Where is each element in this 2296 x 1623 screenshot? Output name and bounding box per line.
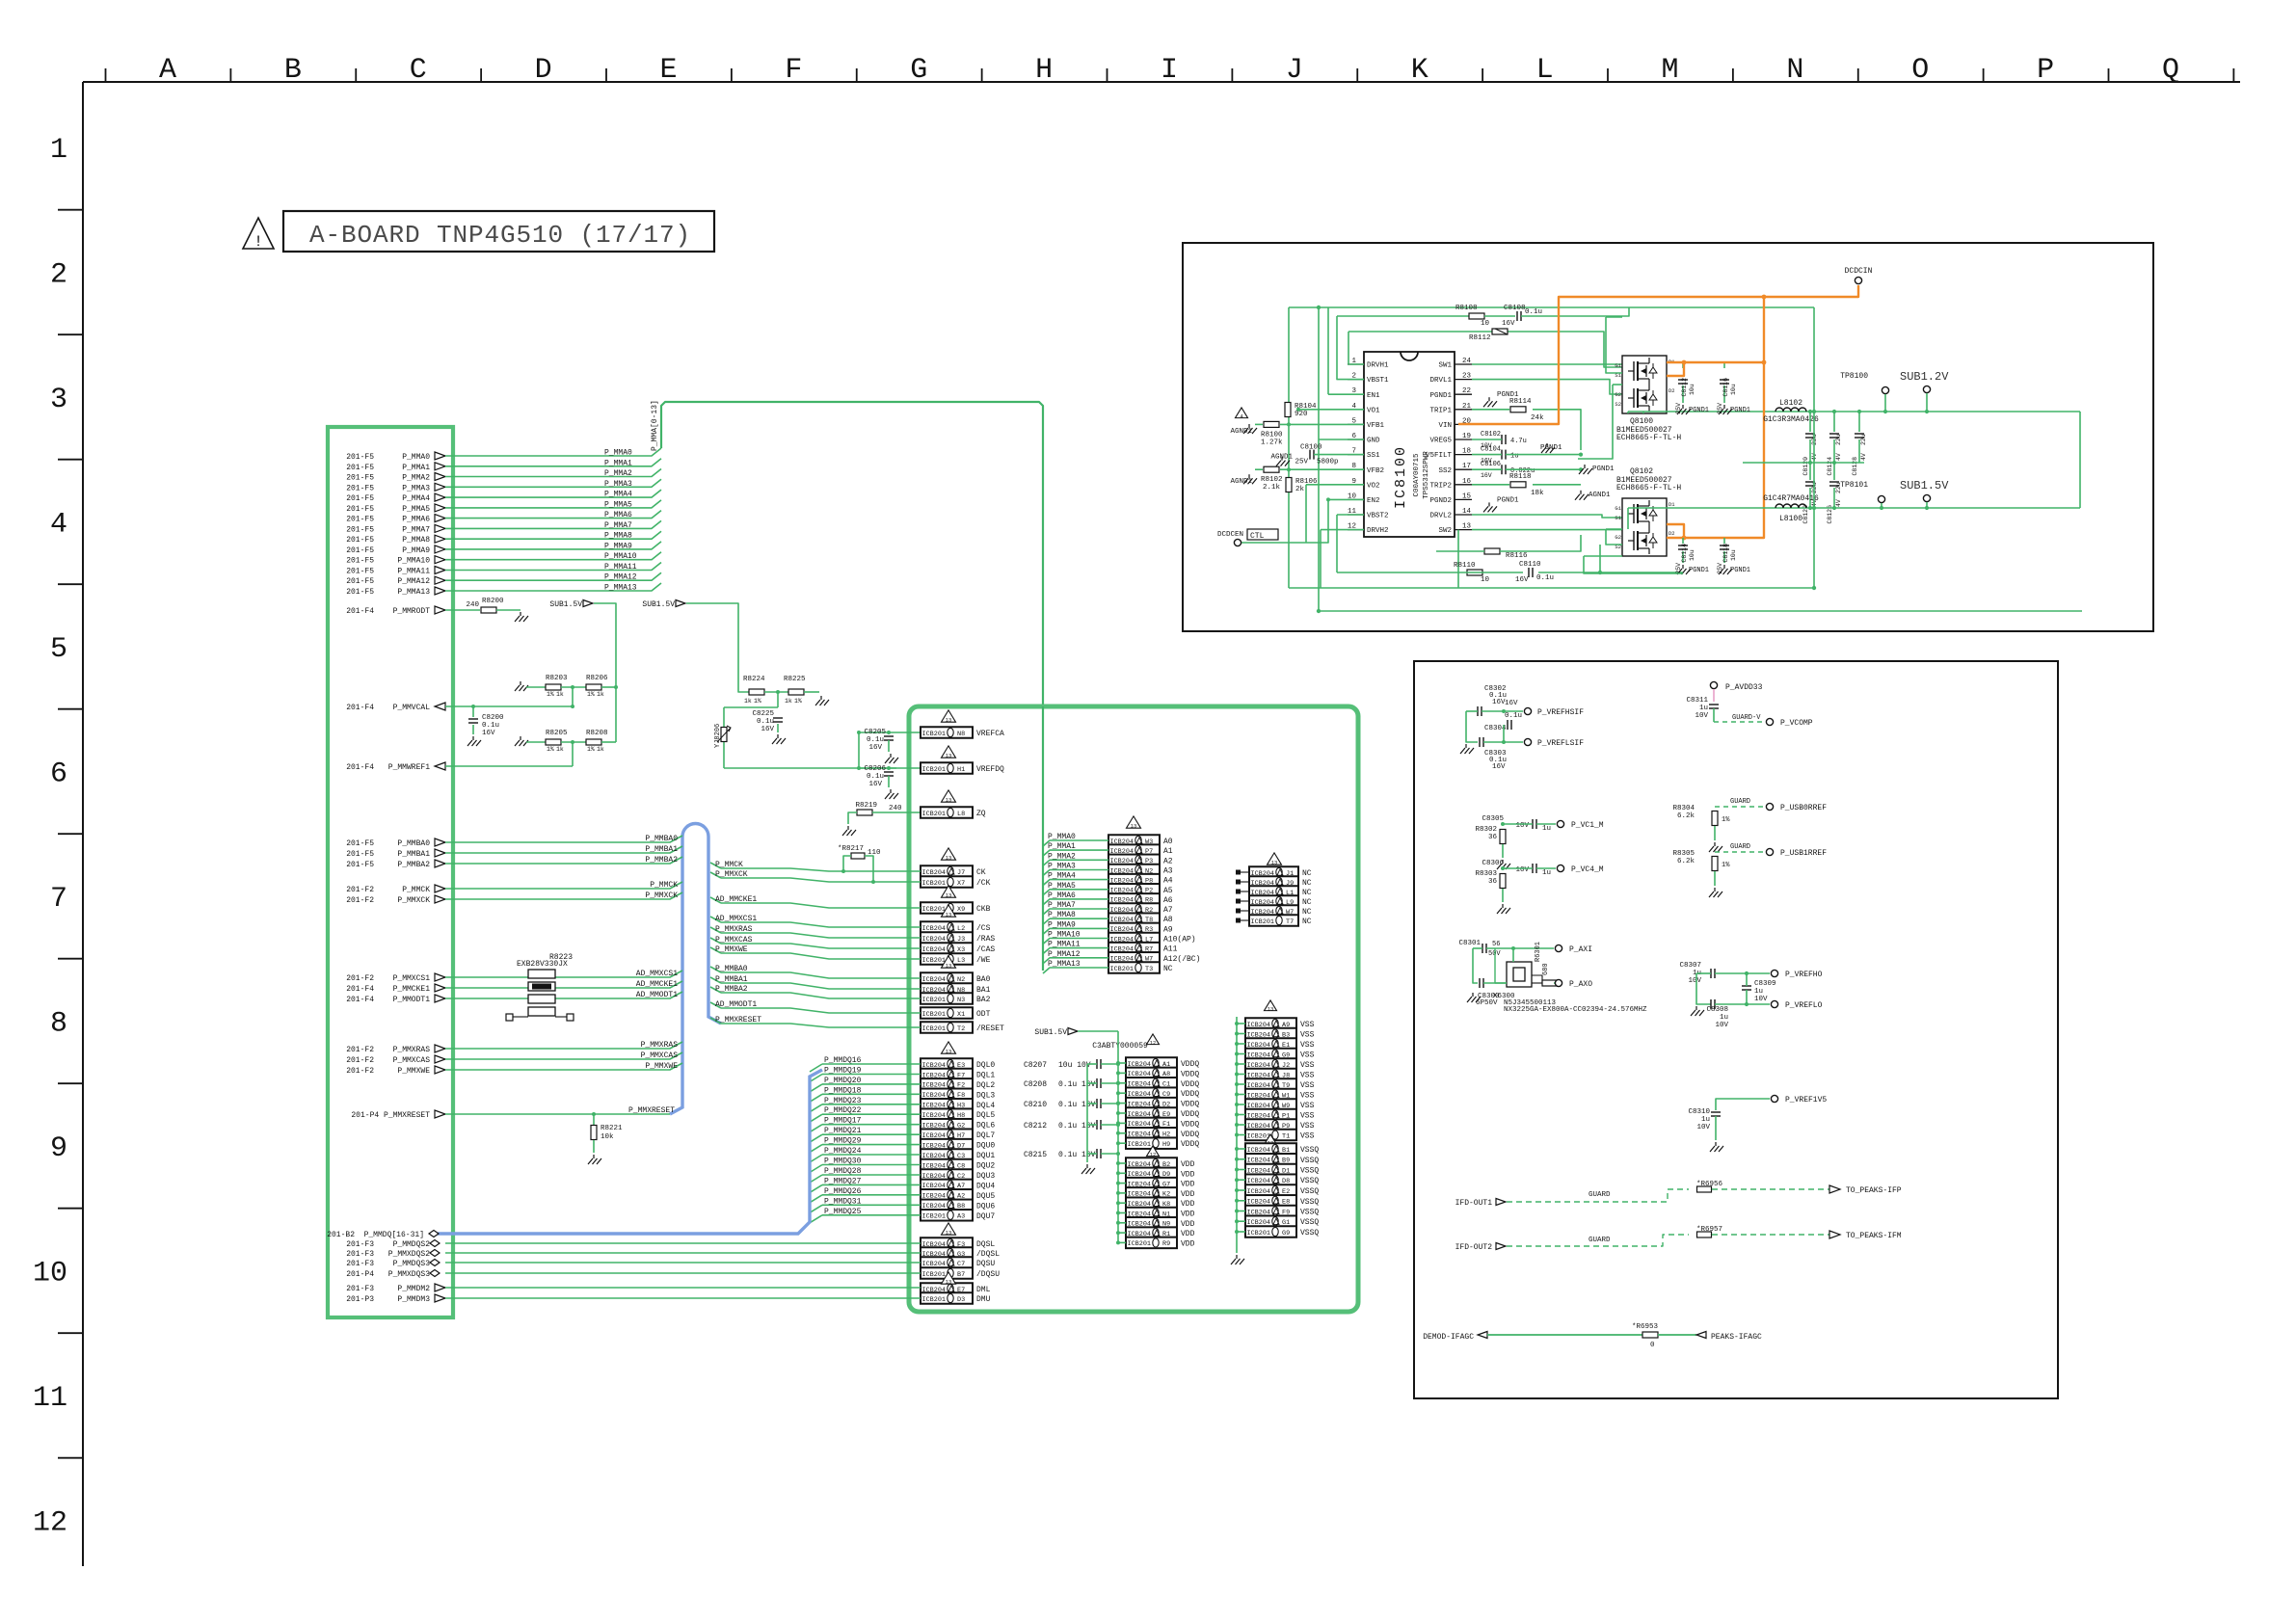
svg-text:AD_MMXCS1: AD_MMXCS1 [636, 970, 678, 978]
svg-text:P_MMXCAS: P_MMXCAS [393, 1056, 431, 1065]
svg-text:22u: 22u [1860, 434, 1867, 445]
svg-text:201-F2: 201-F2 [346, 974, 374, 983]
svg-text:ICB201: ICB201 [1247, 1230, 1270, 1237]
svg-text:VSSQ: VSSQ [1300, 1187, 1319, 1196]
svg-text:/DQSU: /DQSU [976, 1270, 1000, 1279]
svg-text:DML: DML [976, 1286, 991, 1294]
svg-text:10u 10V: 10u 10V [1058, 1061, 1091, 1070]
svg-text:P_MMA7: P_MMA7 [604, 521, 632, 530]
svg-text:10u: 10u [1689, 384, 1695, 395]
svg-text:P_MMBA1: P_MMBA1 [645, 845, 678, 854]
svg-text:IFD-OUT1: IFD-OUT1 [1455, 1199, 1493, 1208]
svg-text:T7: T7 [1286, 918, 1294, 926]
svg-text:VSS: VSS [1300, 1102, 1315, 1110]
svg-text:P_MMXCAS: P_MMXCAS [641, 1051, 679, 1060]
svg-text:VSSQ: VSSQ [1300, 1177, 1319, 1185]
svg-text:4V: 4V [1835, 499, 1842, 507]
svg-text:P_MMBA2: P_MMBA2 [645, 856, 678, 865]
svg-text:C8205: C8205 [864, 729, 886, 736]
svg-text:P_MMA1: P_MMA1 [1048, 842, 1076, 851]
svg-text:G: G [910, 54, 927, 87]
svg-text:16V: 16V [761, 726, 774, 733]
svg-text:201-F2: 201-F2 [346, 1046, 374, 1054]
svg-text:P_MMA3: P_MMA3 [1048, 863, 1076, 871]
svg-text:P_MMDM3: P_MMDM3 [397, 1295, 430, 1304]
svg-text:201-F5: 201-F5 [346, 484, 374, 492]
svg-text:1%: 1% [1722, 862, 1730, 869]
svg-text:18k: 18k [1531, 490, 1544, 497]
svg-text:PGND1: PGND1 [1689, 567, 1709, 574]
svg-text:0.1u 16V: 0.1u 16V [1058, 1151, 1096, 1159]
svg-text:P_MMA10: P_MMA10 [604, 552, 637, 561]
svg-text:4: 4 [50, 509, 67, 542]
svg-text:0.1u: 0.1u [1505, 712, 1522, 720]
svg-text:R8104: R8104 [1295, 403, 1317, 411]
svg-text:C8112: C8112 [1681, 378, 1688, 397]
svg-text:1u: 1u [1542, 869, 1551, 877]
svg-text:201-F2: 201-F2 [346, 896, 374, 905]
svg-text:P_MMBA0: P_MMBA0 [397, 839, 430, 848]
svg-text:C8110: C8110 [1519, 561, 1541, 569]
svg-text:1u: 1u [1754, 988, 1763, 996]
svg-text:P_MMBA1: P_MMBA1 [715, 975, 748, 984]
svg-text:DQL0: DQL0 [976, 1061, 995, 1070]
svg-text:C8212: C8212 [1024, 1122, 1047, 1131]
svg-text:201-F5: 201-F5 [346, 536, 374, 545]
svg-text:16V: 16V [1492, 763, 1506, 771]
svg-text:S1: S1 [1615, 515, 1621, 521]
svg-text:R8221: R8221 [601, 1125, 623, 1132]
svg-text:L: L [1536, 54, 1554, 87]
svg-text:A4: A4 [1163, 877, 1173, 886]
svg-text:DQL7: DQL7 [976, 1131, 995, 1140]
svg-text:GUARD-V: GUARD-V [1732, 714, 1761, 722]
svg-text:25V: 25V [1675, 403, 1682, 414]
svg-text:7: 7 [50, 883, 67, 916]
svg-text:DRVH1: DRVH1 [1367, 362, 1389, 370]
svg-text:201-F5: 201-F5 [346, 557, 374, 566]
svg-text:P_MMA8: P_MMA8 [604, 532, 632, 541]
svg-text:P_MMA7: P_MMA7 [402, 525, 430, 534]
svg-text:VSS: VSS [1300, 1122, 1315, 1131]
svg-text:DRVL2: DRVL2 [1429, 513, 1452, 520]
svg-text:PGND1: PGND1 [1429, 392, 1452, 400]
svg-text:/CAS: /CAS [976, 945, 995, 954]
svg-text:P_MMA9: P_MMA9 [1048, 920, 1076, 929]
svg-text:0: 0 [1650, 1342, 1655, 1349]
svg-text:SUB1.5V: SUB1.5V [1034, 1028, 1067, 1037]
svg-text:A7: A7 [1163, 906, 1173, 915]
svg-text:P_MMA11: P_MMA11 [604, 563, 637, 572]
svg-text:C8108: C8108 [1504, 305, 1526, 312]
svg-text:P_AXI: P_AXI [1569, 945, 1592, 954]
svg-text:A3: A3 [1163, 867, 1173, 876]
svg-text:M: M [1661, 54, 1678, 87]
svg-text:1k: 1k [556, 691, 564, 698]
svg-text:G1: G1 [1615, 362, 1621, 369]
svg-text:36: 36 [1488, 834, 1498, 841]
svg-text:CK: CK [976, 868, 986, 877]
svg-text:56: 56 [1492, 941, 1500, 948]
svg-text:*R8217: *R8217 [838, 845, 864, 853]
svg-text:P_VREFLO: P_VREFLO [1785, 1001, 1823, 1010]
svg-text:VDD: VDD [1181, 1239, 1195, 1248]
svg-text:A: A [159, 54, 176, 87]
svg-text:ICB201: ICB201 [922, 957, 946, 965]
svg-text:C8308: C8308 [1706, 1006, 1728, 1014]
svg-text:H1: H1 [957, 766, 965, 774]
svg-text:22: 22 [1462, 387, 1471, 395]
svg-text:21: 21 [1462, 403, 1472, 411]
svg-text:C8307: C8307 [1679, 962, 1701, 970]
svg-text:SUB1.5V: SUB1.5V [1900, 479, 1949, 492]
svg-text:P_VC1_M: P_VC1_M [1571, 821, 1604, 830]
svg-text:G2: G2 [1615, 391, 1621, 398]
svg-text:K: K [1411, 54, 1428, 87]
svg-text:1%: 1% [587, 746, 595, 753]
svg-text:ICB201: ICB201 [1110, 966, 1134, 973]
svg-text:ICB201: ICB201 [922, 1271, 946, 1279]
svg-text:201-P3: 201-P3 [346, 1295, 374, 1304]
svg-text:ICB201: ICB201 [1128, 1141, 1151, 1149]
svg-text:O: O [1911, 54, 1929, 87]
svg-text:C: C [410, 54, 427, 87]
svg-text:SUB1.5V: SUB1.5V [642, 600, 675, 609]
svg-text:VSSQ: VSSQ [1300, 1198, 1319, 1207]
svg-text:VSS: VSS [1300, 1072, 1315, 1080]
svg-text:VREFCA: VREFCA [976, 730, 1004, 738]
svg-text:EN2: EN2 [1367, 497, 1380, 505]
svg-text:19: 19 [1462, 433, 1471, 440]
svg-text:P: P [2037, 54, 2054, 87]
svg-text:C8311: C8311 [1686, 697, 1708, 705]
svg-text:201-F5: 201-F5 [346, 516, 374, 524]
svg-text:P_MMA5: P_MMA5 [604, 500, 632, 509]
svg-text:TO_PEAKS-IFP: TO_PEAKS-IFP [1846, 1186, 1902, 1195]
svg-text:25V: 25V [1717, 403, 1723, 414]
svg-text:VSSQ: VSSQ [1300, 1146, 1319, 1155]
svg-text:P_USB0RREF: P_USB0RREF [1780, 804, 1827, 812]
svg-text:P_MMA11: P_MMA11 [1048, 941, 1081, 949]
svg-text:/CK: /CK [976, 879, 991, 888]
svg-text:DQU0: DQU0 [976, 1142, 995, 1151]
svg-text:PGND1: PGND1 [1730, 567, 1750, 574]
svg-text:C8215: C8215 [1024, 1151, 1047, 1159]
svg-text:13: 13 [946, 854, 952, 861]
svg-text:8: 8 [50, 1008, 67, 1041]
svg-text:P_MMA[0-13]: P_MMA[0-13] [651, 400, 659, 451]
svg-text:A12(/BC): A12(/BC) [1163, 955, 1200, 964]
svg-text:1k: 1k [597, 746, 604, 753]
svg-text:P_MMA11: P_MMA11 [397, 568, 430, 576]
svg-text:VSS: VSS [1300, 1031, 1315, 1040]
svg-text:P_MMXRAS: P_MMXRAS [393, 1046, 431, 1054]
svg-text:VFB2: VFB2 [1367, 467, 1384, 475]
svg-text:16V: 16V [1515, 576, 1529, 584]
svg-text:P_MMXWE: P_MMXWE [645, 1062, 678, 1071]
svg-text:1u: 1u [1699, 705, 1708, 712]
svg-text:0.1u 16V: 0.1u 16V [1058, 1122, 1096, 1131]
svg-text:201-F2: 201-F2 [346, 1056, 374, 1065]
svg-text:201-P4 P_MMXRESET: 201-P4 P_MMXRESET [351, 1111, 430, 1120]
svg-text:201-F5: 201-F5 [346, 588, 374, 597]
svg-text:C8309: C8309 [1754, 980, 1776, 988]
svg-text:201-F5: 201-F5 [346, 505, 374, 514]
svg-text:25V: 25V [1675, 563, 1682, 574]
svg-text:DRVL1: DRVL1 [1429, 377, 1452, 385]
svg-text:GUARD: GUARD [1730, 798, 1750, 806]
svg-text:16V: 16V [1502, 320, 1515, 328]
svg-text:DQL1: DQL1 [976, 1072, 995, 1080]
svg-text:A2: A2 [1163, 857, 1173, 865]
svg-text:N3: N3 [957, 997, 965, 1004]
svg-text:240: 240 [889, 805, 902, 812]
svg-text:VSSQ: VSSQ [1300, 1167, 1319, 1176]
svg-text:201-F3: 201-F3 [346, 1260, 374, 1268]
svg-text:/CS: /CS [976, 924, 991, 933]
svg-text:T3: T3 [1145, 966, 1153, 973]
svg-text:C8310: C8310 [1688, 1108, 1710, 1116]
svg-text:P_MMXCK: P_MMXCK [397, 896, 430, 905]
svg-text:R6301: R6301 [1535, 942, 1542, 962]
svg-text:A3: A3 [957, 1213, 965, 1221]
svg-text:0.1u 16V: 0.1u 16V [1058, 1080, 1096, 1089]
svg-text:201-F4: 201-F4 [346, 607, 374, 616]
svg-text:201-F5: 201-F5 [346, 474, 374, 483]
svg-text:201-F5: 201-F5 [346, 546, 374, 555]
svg-text:GUARD: GUARD [1589, 1191, 1611, 1199]
svg-text:VBST2: VBST2 [1367, 513, 1389, 520]
svg-text:C8102: C8102 [1481, 431, 1501, 439]
svg-text:DQL6: DQL6 [976, 1122, 995, 1131]
svg-text:0.1u: 0.1u [1525, 308, 1542, 316]
svg-text:VDDQ: VDDQ [1181, 1110, 1199, 1119]
svg-text:P_VREFHSIF: P_VREFHSIF [1537, 708, 1584, 717]
svg-text:EN1: EN1 [1367, 392, 1380, 400]
svg-text:1: 1 [50, 134, 67, 167]
svg-text:C8207: C8207 [1024, 1061, 1047, 1070]
svg-text:P_MMA7: P_MMA7 [1048, 901, 1076, 910]
svg-text:TRIP2: TRIP2 [1429, 482, 1452, 490]
svg-text:2: 2 [50, 259, 67, 292]
svg-text:C8225: C8225 [752, 710, 774, 718]
svg-text:TRIP1: TRIP1 [1429, 407, 1452, 414]
svg-text:10V: 10V [1695, 712, 1708, 720]
svg-text:/RAS: /RAS [976, 935, 995, 944]
svg-text:13: 13 [946, 1048, 952, 1054]
svg-text:P_MMXCAS: P_MMXCAS [715, 936, 753, 945]
svg-text:1%: 1% [587, 691, 595, 698]
svg-text:A5: A5 [1163, 887, 1173, 895]
svg-text:TP8101: TP8101 [1840, 481, 1868, 490]
svg-text:R9: R9 [1162, 1240, 1170, 1248]
svg-text:P_MMDQ[16-31]: P_MMDQ[16-31] [364, 1231, 424, 1239]
svg-text:10u: 10u [1730, 549, 1737, 561]
svg-text:YJ8206: YJ8206 [714, 724, 722, 748]
svg-text:P_MMXRESET: P_MMXRESET [715, 1016, 761, 1024]
svg-text:C8104: C8104 [1481, 446, 1501, 454]
svg-text:P_MMA2: P_MMA2 [604, 469, 632, 478]
svg-text:17: 17 [1462, 463, 1471, 470]
svg-text:G2: G2 [1615, 534, 1621, 541]
svg-text:0.1u: 0.1u [867, 736, 884, 744]
svg-text:P_MMXCS1: P_MMXCS1 [393, 974, 431, 983]
svg-text:VSSQ: VSSQ [1300, 1157, 1319, 1165]
svg-text:10: 10 [1481, 320, 1490, 328]
svg-text:DEMOD-IFAGC: DEMOD-IFAGC [1423, 1333, 1474, 1342]
svg-text:DQU5: DQU5 [976, 1192, 995, 1201]
svg-text:DQSU: DQSU [976, 1260, 995, 1268]
svg-text:A9: A9 [1163, 925, 1173, 934]
svg-text:P_MMA6: P_MMA6 [604, 511, 632, 519]
svg-text:P_MMA4: P_MMA4 [1048, 872, 1076, 881]
svg-text:G1: G1 [1615, 505, 1621, 512]
svg-text:VDD: VDD [1181, 1211, 1195, 1219]
svg-text:AD_MMCKE1: AD_MMCKE1 [715, 895, 757, 904]
svg-text:680: 680 [1542, 963, 1550, 975]
svg-text:13: 13 [1131, 822, 1137, 829]
svg-text:P_MMXRAS: P_MMXRAS [715, 925, 753, 934]
svg-text:VSS: VSS [1300, 1112, 1315, 1121]
svg-text:A1: A1 [1163, 847, 1173, 856]
svg-text:6.2k: 6.2k [1677, 812, 1695, 820]
svg-text:ICB201: ICB201 [922, 1213, 946, 1221]
svg-text:4V: 4V [1835, 453, 1842, 461]
svg-text:R8219: R8219 [855, 802, 877, 810]
svg-text:F: F [785, 54, 802, 87]
svg-text:13: 13 [946, 716, 952, 723]
svg-text:P_MMDQS3: P_MMDQS3 [393, 1260, 431, 1268]
svg-text:R8110: R8110 [1454, 562, 1476, 570]
svg-text:ICB201: ICB201 [922, 880, 946, 888]
svg-text:P_MMXRESET: P_MMXRESET [628, 1106, 675, 1115]
svg-text:P_MMXCK: P_MMXCK [715, 870, 748, 879]
svg-text:IFD-OUT2: IFD-OUT2 [1455, 1243, 1493, 1252]
svg-text:15: 15 [1462, 492, 1472, 500]
svg-text:ECH8665-F-TL-H: ECH8665-F-TL-H [1616, 484, 1681, 492]
svg-text:ECH8665-F-TL-H: ECH8665-F-TL-H [1616, 434, 1681, 442]
svg-text:R8200: R8200 [482, 598, 504, 605]
svg-text:P_MMA0: P_MMA0 [1048, 833, 1076, 841]
svg-text:R8203: R8203 [546, 675, 568, 682]
svg-text:16: 16 [1462, 478, 1472, 486]
svg-text:23: 23 [1462, 373, 1472, 381]
svg-text:GUARD: GUARD [1730, 843, 1750, 851]
svg-text:P_MMA13: P_MMA13 [604, 584, 637, 593]
svg-text:AD_MMXCS1: AD_MMXCS1 [715, 915, 757, 923]
svg-text:10u: 10u [1689, 549, 1695, 561]
svg-text:C8100: C8100 [1300, 444, 1322, 452]
svg-text:DCDCEN: DCDCEN [1217, 531, 1243, 539]
svg-text:1u: 1u [1720, 1014, 1728, 1022]
svg-text:DQU2: DQU2 [976, 1162, 995, 1171]
svg-text:VBST1: VBST1 [1367, 377, 1389, 385]
svg-text:920: 920 [1295, 411, 1308, 418]
svg-text:GND: GND [1367, 438, 1380, 445]
svg-text:201-B2: 201-B2 [327, 1231, 355, 1239]
svg-text:R8114: R8114 [1509, 398, 1532, 406]
svg-text:201-F4: 201-F4 [346, 704, 374, 712]
svg-text:VDD: VDD [1181, 1220, 1195, 1229]
svg-text:Q8100: Q8100 [1630, 417, 1653, 426]
svg-text:X7: X7 [957, 880, 965, 888]
svg-text:/WE: /WE [976, 956, 991, 965]
svg-text:C8301: C8301 [1458, 940, 1481, 947]
svg-text:X9: X9 [957, 906, 965, 914]
svg-text:P_VC4_M: P_VC4_M [1571, 865, 1604, 874]
svg-text:201-F5: 201-F5 [346, 464, 374, 472]
svg-text:PGND2: PGND2 [1429, 497, 1452, 505]
svg-text:C8208: C8208 [1024, 1080, 1047, 1089]
svg-text:201-F3: 201-F3 [346, 1250, 374, 1259]
svg-text:VDDQ: VDDQ [1181, 1131, 1199, 1139]
svg-text:ICB201: ICB201 [922, 766, 946, 774]
svg-text:2.1k: 2.1k [1263, 484, 1281, 492]
svg-text:DCDCIN: DCDCIN [1845, 267, 1873, 276]
svg-text:NC: NC [1302, 898, 1312, 907]
svg-text:0.1u: 0.1u [482, 722, 499, 730]
svg-text:TP8100: TP8100 [1840, 372, 1868, 381]
svg-text:16V: 16V [1505, 700, 1518, 707]
svg-text:201-F3: 201-F3 [346, 1240, 374, 1249]
svg-text:R8206: R8206 [586, 675, 608, 682]
svg-text:R8225: R8225 [784, 676, 806, 683]
svg-text:PGND1: PGND1 [1689, 407, 1709, 414]
svg-text:TO_PEAKS-IFM: TO_PEAKS-IFM [1846, 1232, 1902, 1240]
svg-text:3: 3 [50, 384, 67, 416]
svg-text:P_VCOMP: P_VCOMP [1780, 719, 1813, 728]
svg-text:VSS: VSS [1300, 1132, 1315, 1141]
svg-text:P_MMA10: P_MMA10 [1048, 931, 1081, 940]
svg-text:201-F5: 201-F5 [346, 861, 374, 869]
svg-text:NC: NC [1302, 879, 1312, 888]
svg-text:201-F5: 201-F5 [346, 850, 374, 859]
svg-text:G9: G9 [1282, 1230, 1290, 1237]
svg-text:P_MMA3: P_MMA3 [402, 484, 430, 492]
svg-text:10: 10 [1481, 576, 1490, 584]
svg-text:1k: 1k [744, 698, 752, 705]
svg-text:10k: 10k [601, 1133, 614, 1141]
svg-text:0.1u: 0.1u [757, 718, 774, 726]
svg-text:VDD: VDD [1181, 1230, 1195, 1238]
svg-text:P_MMA10: P_MMA10 [397, 557, 430, 566]
svg-text:201-F5: 201-F5 [346, 453, 374, 462]
svg-text:*R6953: *R6953 [1632, 1323, 1659, 1331]
svg-text:C8124: C8124 [1827, 457, 1833, 476]
svg-text:VDDQ: VDDQ [1181, 1090, 1199, 1099]
svg-text:201-F5: 201-F5 [346, 577, 374, 586]
svg-text:SS1: SS1 [1367, 452, 1380, 460]
svg-text:10V: 10V [1688, 977, 1701, 985]
svg-text:P_MMA13: P_MMA13 [397, 588, 430, 597]
svg-text:24: 24 [1462, 358, 1472, 365]
svg-text:VSS: VSS [1300, 1051, 1315, 1060]
svg-text:ICB201: ICB201 [922, 731, 946, 738]
svg-text:P_MMDM2: P_MMDM2 [397, 1285, 430, 1293]
svg-text:201-F5: 201-F5 [346, 568, 374, 576]
svg-text:NC: NC [1302, 869, 1312, 878]
svg-text:C8210: C8210 [1024, 1101, 1047, 1109]
svg-text:P_MMXCK: P_MMXCK [645, 891, 678, 900]
svg-text:ICB201: ICB201 [922, 997, 946, 1004]
svg-text:VFB1: VFB1 [1367, 422, 1385, 430]
svg-text:D2: D2 [1669, 387, 1675, 394]
svg-text:P_MMA6: P_MMA6 [1048, 891, 1076, 900]
svg-text:4.7u: 4.7u [1510, 438, 1527, 445]
svg-text:X1: X1 [957, 1011, 965, 1019]
svg-text:C00AY00715: C00AY00715 [1413, 453, 1421, 497]
svg-text:VDD: VDD [1181, 1170, 1195, 1179]
